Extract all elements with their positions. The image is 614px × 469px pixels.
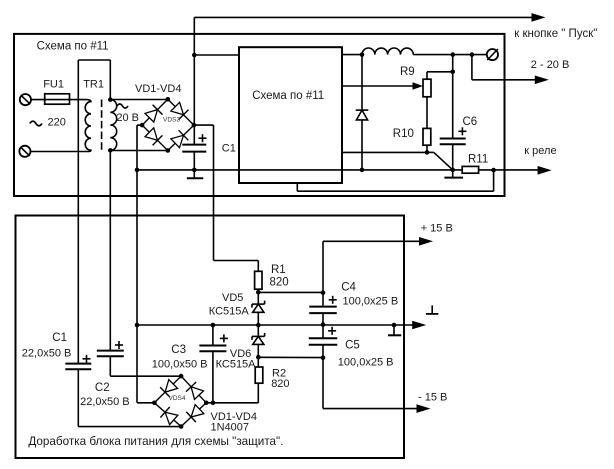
svg-text:FU1: FU1	[43, 79, 64, 91]
svg-text:VD5: VD5	[222, 292, 243, 304]
svg-text:TR1: TR1	[83, 79, 104, 91]
svg-text:820: 820	[270, 277, 289, 289]
svg-text:C4: C4	[341, 282, 356, 294]
svg-text:C1: C1	[52, 332, 67, 344]
svg-text:Доработка блока питания для сх: Доработка блока питания для схемы "защит…	[28, 435, 283, 448]
svg-text:2 - 20 В: 2 - 20 В	[531, 59, 570, 71]
svg-text:R10: R10	[393, 128, 414, 140]
svg-text:22,0x50 В: 22,0x50 В	[80, 396, 130, 408]
svg-text:VDS4: VDS4	[169, 395, 186, 402]
svg-text:100,0x50 В: 100,0x50 В	[152, 358, 208, 370]
svg-text:КС515А: КС515А	[216, 359, 257, 371]
svg-text:820: 820	[271, 378, 289, 390]
svg-text:220: 220	[48, 117, 66, 129]
svg-text:C1: C1	[222, 143, 236, 155]
svg-text:R1: R1	[271, 264, 286, 276]
svg-text:VDS3: VDS3	[163, 116, 180, 123]
svg-text:C6: C6	[463, 116, 478, 128]
svg-text:20 В: 20 В	[116, 112, 139, 124]
svg-text:- 15 В: - 15 В	[418, 392, 447, 404]
svg-text:+ 15 В: + 15 В	[421, 223, 453, 235]
svg-text:Схема по #11: Схема по #11	[37, 41, 109, 53]
svg-text:R9: R9	[400, 66, 415, 78]
svg-text:Схема по #11: Схема по #11	[252, 90, 324, 102]
svg-text:к реле: к реле	[524, 145, 556, 157]
svg-text:КС515А: КС515А	[209, 306, 250, 318]
svg-text:VD1-VD4: VD1-VD4	[135, 83, 181, 95]
svg-text:R11: R11	[468, 154, 488, 166]
svg-text:C3: C3	[171, 344, 186, 356]
svg-text:22,0x50 В: 22,0x50 В	[22, 348, 72, 360]
svg-text:C2: C2	[95, 382, 110, 394]
svg-text:C5: C5	[345, 340, 360, 352]
svg-text:100,0x25 В: 100,0x25 В	[338, 357, 394, 369]
svg-text:1N4007: 1N4007	[211, 421, 250, 433]
svg-text:100,0x25 В: 100,0x25 В	[343, 295, 399, 307]
svg-text:к кнопке " Пуск": к кнопке " Пуск"	[514, 28, 597, 40]
